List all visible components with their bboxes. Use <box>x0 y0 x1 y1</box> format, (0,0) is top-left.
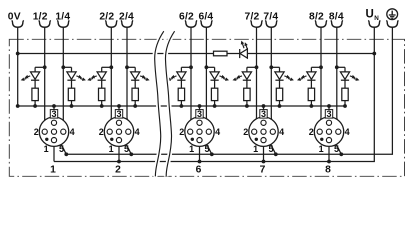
wire pin1 to U bus connector 1 <box>53 143 55 162</box>
LED 8/4 <box>340 67 359 88</box>
svg-text:1: 1 <box>109 144 114 154</box>
connector X8 (M12 socket) <box>314 117 343 146</box>
wire 0V bus <box>18 105 345 107</box>
svg-text:3: 3 <box>51 109 56 119</box>
svg-text:1: 1 <box>319 144 324 154</box>
break mark (omitted section squiggles) <box>155 31 175 176</box>
svg-text:2: 2 <box>34 127 39 137</box>
terminal 8/2 <box>309 12 327 28</box>
wire signal 2/4 <box>125 27 135 129</box>
svg-text:5: 5 <box>334 144 339 154</box>
svg-text:4: 4 <box>215 127 220 137</box>
svg-text:2: 2 <box>179 127 184 137</box>
svg-text:7/2: 7/2 <box>245 12 260 23</box>
pin labels connector 8 <box>309 109 350 154</box>
svg-text:2: 2 <box>115 164 121 175</box>
port number 7 <box>260 164 266 175</box>
wire pin3 drop connector 8 <box>327 104 331 120</box>
resistor 7/2 <box>244 88 250 108</box>
port number 8 <box>325 164 331 175</box>
wire pin5 to PE bus connector 7 <box>265 134 277 157</box>
pin labels connector 7 <box>243 109 284 154</box>
terminal 7/4 <box>263 12 278 28</box>
port number 2 <box>115 164 121 175</box>
svg-text:4: 4 <box>279 127 284 137</box>
connector X6 (M12 socket) <box>185 117 214 146</box>
svg-text:8: 8 <box>325 164 331 175</box>
resistor 1/2 <box>32 88 38 108</box>
svg-text:5: 5 <box>124 144 129 154</box>
LED 8/2 <box>297 67 316 88</box>
svg-text:4: 4 <box>345 127 350 137</box>
svg-text:2/2: 2/2 <box>99 12 114 23</box>
LED 7/4 <box>275 67 294 88</box>
wire pin1 to U bus connector 7 <box>262 143 266 164</box>
LED 1/4 <box>67 67 86 88</box>
wire pin3 drop connector 1 <box>52 104 56 120</box>
svg-text:2: 2 <box>99 127 104 137</box>
wire power-LED line from 0V to UN <box>18 53 375 55</box>
resistor 7/4 <box>276 88 282 108</box>
connector X1 (M12 socket) <box>39 117 68 146</box>
svg-text:7: 7 <box>260 164 266 175</box>
connector X2 (M12 socket) <box>104 117 133 146</box>
resistor 2/4 <box>132 88 138 108</box>
terminal 2/2 <box>99 12 117 28</box>
wire pin1 to U bus connector 2 <box>117 143 121 164</box>
LED 2/4 <box>131 67 150 88</box>
wire signal 6/2 <box>181 27 193 129</box>
svg-text:6: 6 <box>196 164 202 175</box>
svg-text:3: 3 <box>261 109 266 119</box>
terminal UN (supply) <box>365 9 380 28</box>
resistor 2/2 <box>99 88 105 108</box>
terminal 1/2 <box>33 12 51 28</box>
svg-text:2: 2 <box>243 127 248 137</box>
LED 2/2 <box>87 67 106 88</box>
LED power (pointing left) <box>240 41 248 59</box>
svg-text:4: 4 <box>135 127 140 137</box>
terminal 2/4 <box>119 12 134 28</box>
svg-text:1: 1 <box>50 164 56 175</box>
wire signal 2/2 <box>102 27 114 129</box>
svg-text:5: 5 <box>204 144 209 154</box>
wire signal 8/2 <box>311 27 323 129</box>
connector X7 (M12 socket) <box>249 117 278 146</box>
wire signal 1/2 <box>35 27 47 129</box>
svg-text:1: 1 <box>44 144 49 154</box>
pin labels connector 6 <box>179 109 220 154</box>
wire signal 7/4 <box>269 27 279 129</box>
svg-text:6/2: 6/2 <box>179 12 194 23</box>
wire pin3 drop connector 6 <box>198 104 202 120</box>
resistor 8/2 <box>308 88 314 108</box>
wire pin5 to PE bus connector 8 <box>331 134 343 157</box>
LED 1/2 <box>21 67 40 88</box>
svg-text:1: 1 <box>189 144 194 154</box>
wire pin1 to U bus connector 6 <box>198 143 202 164</box>
svg-text:1: 1 <box>253 144 258 154</box>
resistor 6/2 <box>178 88 184 108</box>
svg-text:5: 5 <box>59 144 64 154</box>
wire signal 6/4 <box>205 27 215 129</box>
enclosure boundary (dash-dot frame) <box>9 39 404 176</box>
LED 6/4 <box>210 67 229 88</box>
resistor 8/4 <box>342 88 348 108</box>
terminal PE (circled earth symbol) <box>386 9 398 27</box>
terminal 0V <box>8 12 24 28</box>
wire pin3 drop connector 2 <box>117 104 121 120</box>
wire pin5 to PE bus connector 6 <box>201 134 213 157</box>
LED 7/2 <box>233 67 252 88</box>
wire 0V feeder <box>16 27 20 108</box>
svg-text:5: 5 <box>268 144 273 154</box>
wire pin5 to PE bus connector 2 <box>121 134 133 157</box>
wire pin1 to U bus connector 8 <box>327 143 331 164</box>
svg-text:3: 3 <box>116 109 121 119</box>
wire pin3 drop connector 7 <box>262 104 266 120</box>
resistor R-power (series on power-LED line) <box>214 51 228 56</box>
port number 1 <box>50 164 56 175</box>
terminal 7/2 <box>245 12 263 28</box>
resistor 6/4 <box>211 88 217 108</box>
svg-text:1/2: 1/2 <box>33 12 48 23</box>
svg-text:4: 4 <box>70 127 75 137</box>
svg-text:3: 3 <box>197 109 202 119</box>
svg-text:N: N <box>374 15 379 22</box>
port number 6 <box>196 164 202 175</box>
svg-text:3: 3 <box>326 109 331 119</box>
wire UN feeder and pin1 bus <box>54 27 376 162</box>
wire signal 7/2 <box>247 27 259 129</box>
svg-text:2: 2 <box>309 127 314 137</box>
svg-text:0V: 0V <box>8 12 21 23</box>
wire pin5 to PE bus connector 1 <box>56 134 68 157</box>
wire signal 8/4 <box>335 27 345 129</box>
pin labels connector 1 <box>34 109 75 154</box>
svg-text:U: U <box>365 9 373 21</box>
terminal 6/2 <box>179 12 197 28</box>
terminal 1/4 <box>55 12 70 28</box>
wire PE feeder and pin5 bus <box>66 27 392 154</box>
resistor 1/4 <box>68 88 74 108</box>
pin labels connector 2 <box>99 109 140 154</box>
wire signal 1/4 <box>61 27 71 129</box>
LED 6/2 <box>167 67 186 88</box>
svg-text:8/2: 8/2 <box>309 12 324 23</box>
terminal 6/4 <box>198 12 213 28</box>
terminal 8/4 <box>329 12 344 28</box>
